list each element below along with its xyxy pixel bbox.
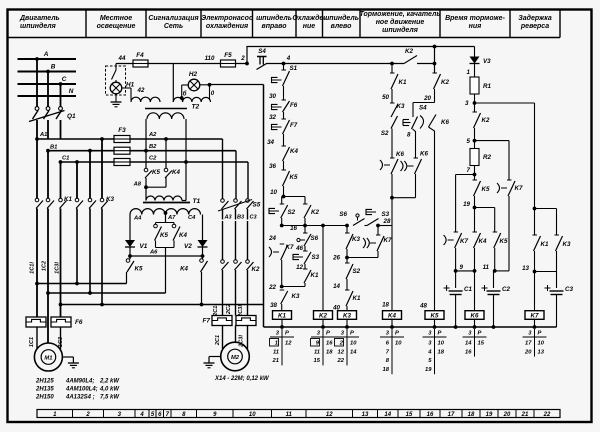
svg-text:S3: S3	[312, 254, 320, 261]
svg-text:K3: K3	[352, 236, 360, 243]
overload F6	[26, 317, 46, 327]
svg-text:0: 0	[211, 90, 215, 97]
K4 rung top	[391, 64, 393, 74]
wire delay branch	[535, 208, 557, 210]
contact K3 delay	[555, 234, 560, 236]
svg-text:4,0 kW: 4,0 kW	[99, 387, 120, 393]
svg-text:B1: B1	[50, 145, 57, 151]
svg-text:4AM90L4;: 4AM90L4;	[65, 379, 94, 385]
svg-text:14: 14	[465, 341, 472, 347]
svg-text:19: 19	[425, 367, 432, 373]
svg-text:б: б	[183, 91, 187, 98]
svg-text:M2: M2	[231, 355, 240, 361]
svg-text:Q1: Q1	[67, 113, 76, 120]
svg-text:21: 21	[521, 412, 529, 418]
svg-text:Время торможе-: Время торможе-	[445, 15, 505, 22]
svg-text:K7: K7	[460, 238, 468, 245]
svg-text:F6: F6	[75, 319, 83, 326]
svg-text:12: 12	[285, 341, 292, 347]
svg-text:S4: S4	[258, 48, 266, 55]
svg-text:S2: S2	[288, 209, 296, 216]
svg-text:A7: A7	[167, 215, 176, 221]
wire A6	[130, 255, 203, 257]
svg-text:V2: V2	[184, 243, 192, 250]
contact K6 timed left	[380, 160, 383, 170]
contact K7 upper arc	[497, 183, 500, 193]
svg-text:22: 22	[543, 412, 551, 418]
relay coil K3	[338, 311, 357, 320]
switch Q1	[35, 107, 39, 111]
tap A7	[164, 211, 168, 215]
svg-text:K4: K4	[290, 148, 298, 155]
svg-text:K6: K6	[420, 151, 428, 158]
svg-text:влево: влево	[331, 23, 352, 30]
wire node19 row	[475, 207, 495, 209]
svg-text:Охлажде-: Охлажде-	[292, 14, 326, 22]
svg-text:K2: K2	[441, 79, 449, 86]
svg-text:Сигнализация: Сигнализация	[148, 15, 198, 22]
svg-text:S6: S6	[311, 235, 319, 242]
wire rung16 row	[282, 225, 347, 227]
wire node10 row	[282, 196, 305, 198]
svg-text:12: 12	[338, 349, 345, 355]
svg-text:C3: C3	[250, 215, 258, 221]
button S2 start	[281, 197, 283, 205]
svg-text:110: 110	[205, 55, 215, 62]
svg-text:B3: B3	[237, 215, 245, 221]
svg-text:19: 19	[486, 412, 493, 418]
svg-text:2: 2	[85, 412, 90, 418]
svg-text:F7: F7	[290, 122, 298, 129]
svg-text:K5: K5	[135, 266, 143, 273]
ground H1	[115, 94, 117, 102]
svg-text:1C3I: 1C3I	[55, 262, 61, 274]
svg-text:B2: B2	[149, 144, 157, 150]
svg-text:K6: K6	[396, 151, 404, 158]
svg-text:V3: V3	[483, 58, 491, 65]
wire T2 primary left to B2	[145, 119, 147, 169]
svg-text:шпиндель: шпиндель	[323, 14, 359, 22]
svg-text:12: 12	[326, 412, 333, 418]
overload contact F7	[272, 124, 278, 129]
contact K5 brake	[129, 256, 131, 259]
svg-text:K2: K2	[311, 209, 319, 216]
svg-text:15: 15	[478, 341, 485, 347]
wire H2 taps	[181, 85, 183, 98]
wire node7 to K7 lower branch	[456, 174, 475, 176]
svg-text:S2: S2	[353, 268, 361, 275]
phase line C	[18, 83, 77, 85]
contact K6 timed right	[401, 161, 404, 171]
svg-text:14: 14	[350, 349, 357, 355]
svg-text:7: 7	[467, 167, 471, 174]
svg-text:N: N	[69, 88, 74, 95]
svg-text:K7: K7	[515, 185, 523, 192]
svg-text:3: 3	[465, 100, 469, 107]
svg-text:X14 - 22M; 0,12 kW: X14 - 22M; 0,12 kW	[214, 376, 270, 382]
wires into M2	[222, 326, 224, 350]
contact K3	[280, 289, 285, 291]
wire H2 to left rail	[210, 84, 264, 86]
svg-text:12: 12	[296, 264, 303, 271]
relay coil K7	[525, 311, 544, 320]
capacitor C1	[455, 271, 457, 288]
svg-text:15: 15	[314, 358, 321, 364]
svg-text:R1: R1	[483, 83, 491, 90]
svg-text:1C1: 1C1	[29, 337, 35, 347]
contact S4 on K5 rung	[413, 102, 435, 104]
svg-text:P: P	[478, 331, 482, 337]
contact K1 branch	[303, 268, 308, 270]
svg-text:15: 15	[406, 412, 413, 418]
contactor K3 power contacts	[75, 198, 79, 202]
svg-text:28: 28	[383, 218, 391, 225]
wire bus A1 row	[37, 138, 223, 140]
ground M1	[62, 356, 73, 358]
svg-text:шпинделя: шпинделя	[382, 26, 418, 34]
svg-text:K3: K3	[343, 313, 351, 320]
wire K4 to T1 primary	[165, 177, 167, 187]
wire node5 to K7 branch	[475, 140, 510, 142]
svg-text:22: 22	[337, 358, 345, 364]
svg-text:20: 20	[524, 349, 532, 355]
svg-text:2H135: 2H135	[35, 387, 54, 393]
contact K3 timed on K4 rung	[390, 102, 395, 104]
svg-text:S4: S4	[419, 105, 427, 112]
svg-text:2H150: 2H150	[35, 395, 54, 401]
svg-text:Задержка: Задержка	[518, 14, 552, 22]
contact K1 delay	[533, 234, 538, 236]
svg-text:K4: K4	[179, 232, 187, 239]
contact K4	[282, 145, 287, 147]
svg-text:4A132S4 ;: 4A132S4 ;	[65, 395, 95, 401]
top control bus	[247, 47, 475, 64]
svg-text:10: 10	[438, 341, 445, 347]
svg-text:7,5 kW: 7,5 kW	[100, 395, 120, 401]
svg-text:B: B	[51, 64, 56, 71]
wires S5 to K2	[222, 209, 224, 220]
motor M2	[221, 342, 250, 371]
svg-text:S1: S1	[290, 65, 298, 72]
wire lighting line	[116, 63, 247, 65]
svg-text:C4: C4	[188, 215, 196, 221]
contact K5 above T1	[144, 168, 148, 172]
svg-text:18: 18	[438, 349, 445, 355]
K3 coil rung	[346, 226, 348, 234]
svg-text:P: P	[350, 331, 354, 337]
header table grid	[8, 37, 561, 39]
svg-text:19: 19	[463, 201, 470, 208]
contact S3 latch	[293, 254, 299, 259]
wire K1 phase drops	[36, 139, 38, 199]
svg-text:36: 36	[269, 163, 276, 170]
contact K2 holding	[304, 197, 306, 205]
wire selector to brake line2	[165, 248, 167, 294]
branch node 8	[412, 103, 414, 118]
svg-text:10: 10	[270, 189, 277, 196]
lamp H2	[188, 79, 200, 91]
svg-text:K1: K1	[64, 196, 72, 203]
svg-text:16: 16	[427, 412, 434, 418]
contact K4 brake	[202, 256, 204, 259]
svg-text:18: 18	[326, 349, 333, 355]
diode V3	[474, 47, 476, 57]
svg-text:K7: K7	[531, 313, 539, 320]
svg-text:T2: T2	[192, 104, 200, 111]
contact K2 on brake column	[473, 111, 478, 113]
wire T2 feed drop	[172, 64, 174, 103]
wires into M1	[36, 327, 38, 349]
delay column vertical	[534, 103, 536, 235]
K4 rung lower	[391, 197, 393, 311]
svg-text:реверса: реверса	[520, 23, 549, 30]
wire K3 phase drops	[76, 162, 78, 199]
svg-text:P: P	[538, 331, 542, 337]
svg-text:32: 32	[269, 114, 276, 121]
svg-text:2H125: 2H125	[35, 379, 54, 385]
svg-text:H2: H2	[189, 71, 198, 78]
svg-text:1C2: 1C2	[42, 260, 48, 271]
transformer T2 core	[145, 108, 187, 110]
svg-text:S3: S3	[382, 211, 390, 218]
wire B2 corner to S5	[235, 151, 237, 199]
svg-text:42: 42	[137, 87, 145, 94]
svg-text:48: 48	[419, 303, 427, 310]
resistor R2	[470, 149, 479, 166]
svg-text:K5: K5	[482, 186, 490, 193]
svg-text:шпинделя: шпинделя	[20, 22, 56, 30]
svg-text:S6: S6	[339, 211, 347, 218]
svg-text:K3: K3	[397, 103, 405, 110]
button S2 stop2	[345, 262, 350, 264]
svg-text:K6: K6	[471, 313, 479, 320]
svg-text:F6: F6	[290, 102, 298, 109]
svg-text:R2: R2	[483, 154, 491, 161]
svg-text:K3: K3	[563, 241, 571, 248]
svg-text:K6: K6	[441, 119, 449, 126]
svg-text:K2: K2	[252, 266, 260, 273]
svg-text:2,2 kW: 2,2 kW	[99, 379, 120, 385]
wire A2 corner to S5	[222, 139, 224, 199]
relay coil K4	[383, 311, 402, 320]
svg-text:26: 26	[332, 255, 340, 262]
svg-text:ное движение: ное движение	[376, 18, 425, 26]
wire node3 to delay column	[475, 102, 535, 104]
contact K4 above T1	[164, 168, 168, 172]
svg-text:10: 10	[538, 341, 545, 347]
svg-text:P: P	[395, 331, 399, 337]
svg-text:13: 13	[362, 412, 369, 418]
svg-text:4: 4	[286, 55, 291, 62]
transformer T2 winding b-0	[173, 97, 210, 102]
ground M2	[209, 356, 221, 358]
motor M1	[34, 343, 62, 371]
svg-text:11: 11	[483, 264, 490, 271]
svg-text:P: P	[326, 331, 330, 337]
switch S5	[221, 199, 225, 203]
contact K7 release branch	[377, 226, 379, 236]
svg-text:4AM100L4;: 4AM100L4;	[65, 387, 98, 393]
svg-text:22: 22	[268, 284, 276, 291]
brake line 1	[37, 283, 127, 285]
svg-text:1C1I: 1C1I	[30, 262, 36, 274]
transformer T1 primary	[146, 196, 182, 201]
svg-text:10: 10	[249, 412, 256, 418]
lamp H1 dashed box	[106, 66, 126, 95]
svg-text:охлаждения: охлаждения	[206, 22, 248, 30]
svg-text:17: 17	[448, 412, 455, 418]
wire phase drops	[35, 57, 39, 61]
capacitor C3	[550, 290, 564, 292]
svg-text:K7: K7	[384, 237, 392, 244]
svg-text:38: 38	[270, 302, 277, 309]
svg-text:F3: F3	[118, 127, 126, 134]
svg-text:10: 10	[350, 341, 357, 347]
svg-text:17: 17	[525, 341, 532, 347]
contacts K5 K4 selector	[156, 222, 175, 224]
brake line 3	[61, 304, 264, 306]
svg-text:F7: F7	[203, 318, 211, 325]
svg-text:11: 11	[314, 349, 320, 355]
svg-text:2C1: 2C1	[215, 335, 221, 346]
svg-text:A3: A3	[224, 215, 233, 221]
wire 63 line segment 1	[266, 63, 404, 65]
svg-text:Электронасос: Электронасос	[201, 15, 253, 22]
contact S2 on K4 rung	[391, 116, 398, 129]
svg-text:K5: K5	[431, 313, 439, 320]
wires K2 to F7	[222, 270, 224, 316]
svg-text:K5: K5	[160, 232, 168, 239]
svg-text:11: 11	[286, 412, 293, 418]
wire bus B1 row	[48, 150, 236, 152]
svg-text:K2: K2	[319, 313, 327, 320]
svg-text:C1: C1	[464, 286, 472, 293]
contactor K1 power contacts	[35, 198, 39, 202]
contact K5 lower	[494, 208, 496, 233]
svg-text:C3: C3	[565, 286, 573, 293]
bottom control bus	[264, 326, 557, 328]
svg-text:K4: K4	[479, 238, 487, 245]
svg-text:24: 24	[268, 235, 276, 242]
svg-text:20: 20	[503, 412, 511, 418]
svg-text:K5: K5	[152, 169, 160, 176]
svg-text:ния: ния	[469, 23, 482, 30]
svg-text:K5: K5	[290, 174, 298, 181]
resistor R1	[470, 77, 479, 94]
svg-text:18: 18	[382, 302, 389, 309]
lamp H1	[110, 82, 122, 94]
svg-text:30: 30	[269, 93, 276, 100]
svg-text:14: 14	[384, 412, 391, 418]
svg-text:K4: K4	[388, 313, 396, 320]
svg-text:9: 9	[460, 264, 464, 271]
contact K5	[282, 169, 287, 171]
svg-text:2: 2	[240, 55, 245, 62]
phase line N	[18, 95, 77, 97]
svg-text:A8: A8	[133, 182, 142, 188]
svg-text:A2: A2	[148, 132, 157, 138]
svg-text:4: 4	[139, 412, 144, 418]
svg-text:21: 21	[272, 358, 279, 364]
svg-text:F4: F4	[136, 52, 144, 59]
svg-text:S5: S5	[253, 202, 261, 209]
svg-text:Местное: Местное	[100, 15, 132, 22]
svg-text:Двигатель: Двигатель	[19, 15, 60, 22]
svg-text:K5: K5	[500, 238, 508, 245]
wire bus C1 row	[61, 161, 249, 163]
svg-text:A: A	[43, 51, 49, 58]
svg-text:K3: K3	[292, 293, 300, 300]
svg-text:S2: S2	[381, 130, 389, 137]
svg-text:11: 11	[273, 349, 279, 355]
svg-text:46: 46	[295, 245, 303, 252]
contact K5 brake col	[473, 179, 478, 181]
svg-text:P: P	[285, 331, 289, 337]
svg-text:34: 34	[267, 139, 274, 146]
wire T2 primary right to T1 primary right	[185, 119, 187, 201]
svg-text:2C2: 2C2	[226, 303, 232, 315]
svg-text:F5: F5	[224, 52, 232, 59]
svg-text:K4: K4	[172, 169, 180, 176]
svg-text:K1: K1	[353, 295, 361, 302]
svg-text:C: C	[62, 76, 67, 83]
svg-text:18: 18	[468, 412, 475, 418]
diode V1	[129, 215, 131, 241]
svg-text:Сеть: Сеть	[164, 23, 183, 30]
relay coil K1	[273, 311, 292, 320]
svg-text:P: P	[438, 331, 442, 337]
svg-text:18: 18	[383, 367, 390, 373]
contact K7 arc lower	[444, 235, 447, 245]
svg-text:14: 14	[333, 283, 340, 290]
svg-text:K2: K2	[482, 117, 490, 124]
svg-text:C2: C2	[149, 156, 157, 162]
contact K1 interlock	[345, 289, 350, 291]
wire lamp to winding	[122, 87, 131, 89]
svg-text:5: 5	[467, 138, 471, 145]
capacitor C2	[493, 271, 495, 288]
svg-text:A4: A4	[133, 216, 142, 222]
svg-text:20: 20	[423, 95, 431, 102]
svg-text:16: 16	[465, 349, 472, 355]
contact K4 lower	[474, 208, 476, 233]
svg-text:A6: A6	[149, 250, 158, 256]
svg-text:K1: K1	[399, 79, 407, 86]
diode V2	[202, 215, 204, 241]
svg-text:K4: K4	[180, 266, 188, 273]
svg-text:ние: ние	[303, 23, 316, 30]
svg-text:K7: K7	[286, 244, 294, 251]
contact K1 on K4 rung	[390, 72, 395, 74]
contactor K2 power contacts	[221, 260, 225, 264]
svg-text:C2: C2	[502, 286, 510, 293]
contact K2 on K5 rung	[433, 72, 438, 74]
relay coil K2	[314, 311, 333, 320]
svg-text:T1: T1	[193, 198, 201, 205]
svg-text:1: 1	[467, 69, 471, 76]
button S3 on row	[366, 209, 372, 214]
svg-text:K1: K1	[541, 241, 549, 248]
contact K7 timed	[269, 247, 272, 257]
svg-text:C1: C1	[62, 156, 69, 162]
lamp H1 switch	[115, 66, 117, 70]
svg-text:K1: K1	[278, 313, 286, 320]
relay coil K6	[474, 271, 476, 311]
transformer T2 primary	[147, 113, 184, 119]
svg-text:50: 50	[382, 94, 389, 101]
relay coil K5	[425, 311, 444, 320]
release flag S4-K3	[403, 119, 409, 121]
